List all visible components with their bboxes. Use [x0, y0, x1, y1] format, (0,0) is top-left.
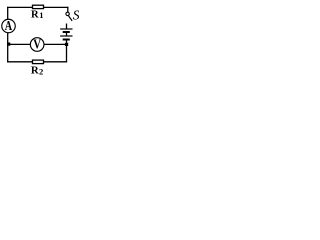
- switch S terminal circle: [66, 12, 69, 15]
- battery cell 2 short plate: [63, 39, 70, 41]
- junction node right: [65, 43, 68, 46]
- battery cell 1 short plate: [63, 31, 70, 33]
- voltmeter V circle: [30, 38, 44, 52]
- wire left vertical upper (corner to ammeter): [7, 7, 9, 20]
- svg-text:A: A: [5, 17, 13, 33]
- svg-text:R: R: [31, 65, 39, 76]
- svg-text:S: S: [73, 7, 79, 22]
- wire battery to junction: [66, 40, 68, 63]
- wire switch to battery: [66, 24, 68, 29]
- wire middle right (V to junction): [44, 43, 66, 45]
- battery cell 2 long plate: [60, 35, 72, 37]
- wire top-left horizontal (node to R1): [7, 6, 32, 8]
- switch S blade: [68, 15, 72, 21]
- svg-text:2: 2: [39, 67, 43, 75]
- resistor R1: [33, 5, 44, 8]
- junction node left: [7, 43, 10, 46]
- svg-text:1: 1: [39, 10, 43, 20]
- wire top-right horizontal (R1 to switch): [44, 6, 69, 8]
- wire bottom right (R2 to corner): [44, 61, 67, 63]
- resistor R2: [33, 60, 44, 64]
- wire bottom left (corner to R2): [7, 61, 32, 63]
- wire between battery cells: [66, 32, 68, 36]
- svg-text:V: V: [33, 36, 41, 51]
- ammeter A circle: [2, 19, 16, 33]
- wire left vertical lower (ammeter to bottom corner): [7, 33, 9, 63]
- battery cell 1 long plate: [60, 28, 72, 30]
- svg-text:R: R: [31, 9, 39, 20]
- wire middle left (junction to V): [8, 43, 31, 45]
- wire right vertical (corner to switch terminal): [67, 7, 69, 13]
